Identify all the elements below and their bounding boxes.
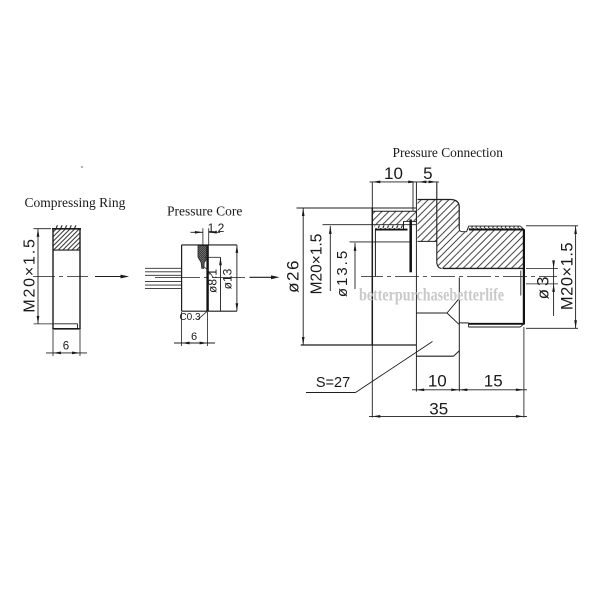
svg-text:ø3: ø3 [534,274,553,300]
svg-text:ø13.5: ø13.5 [334,249,351,297]
svg-text:10: 10 [384,164,403,183]
svg-text:1.2: 1.2 [208,221,225,235]
svg-text:15: 15 [484,372,503,391]
svg-text:S=27: S=27 [316,375,350,391]
svg-text:6: 6 [191,331,197,343]
svg-text:6: 6 [63,341,69,353]
svg-text:ø26: ø26 [284,259,303,293]
svg-text:Compressing Ring: Compressing Ring [25,195,126,210]
svg-text:ø8.1: ø8.1 [206,269,220,293]
svg-text:C0.3: C0.3 [179,312,201,323]
svg-text:betterpurchasebetterlife: betterpurchasebetterlife [359,285,504,305]
svg-text:M20×1.5: M20×1.5 [309,234,326,295]
svg-text:M20×1.5: M20×1.5 [559,242,577,310]
svg-text:ø13: ø13 [221,268,235,289]
svg-text:35: 35 [429,400,448,419]
svg-text:M20×1.5: M20×1.5 [22,237,39,312]
svg-text:10: 10 [428,372,447,391]
svg-text:5: 5 [423,164,432,183]
svg-text:Pressure Connection: Pressure Connection [393,145,504,160]
svg-text:Pressure Core: Pressure Core [167,203,242,218]
